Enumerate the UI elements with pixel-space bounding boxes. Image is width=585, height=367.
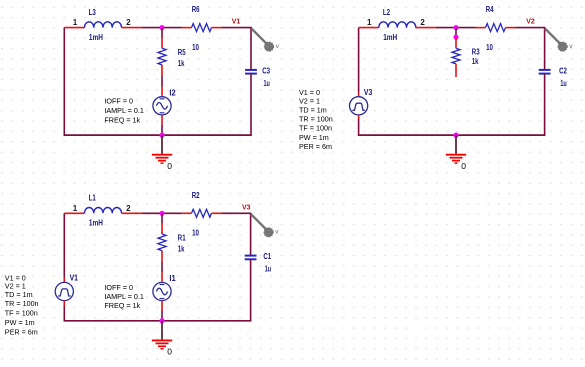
svg-text:PER = 6m: PER = 6m bbox=[299, 142, 332, 151]
svg-text:PER = 6m: PER = 6m bbox=[5, 328, 38, 337]
wire bbox=[161, 251, 163, 262]
svg-text:IOFF = 0: IOFF = 0 bbox=[104, 283, 133, 292]
ground bbox=[152, 321, 172, 349]
source V3 parameters bbox=[299, 88, 333, 151]
ground bbox=[152, 135, 172, 163]
svg-text:TD = 1m: TD = 1m bbox=[5, 290, 33, 299]
voltage probe bbox=[251, 214, 279, 237]
wire bbox=[63, 305, 65, 321]
wire bbox=[161, 224, 163, 234]
svg-text:IAMPL = 0.1: IAMPL = 0.1 bbox=[104, 292, 143, 301]
wire bbox=[436, 27, 476, 29]
svg-text:L1: L1 bbox=[89, 194, 97, 203]
wire bbox=[161, 38, 163, 48]
wire bbox=[161, 115, 163, 125]
svg-text:V2 = 1: V2 = 1 bbox=[299, 96, 320, 105]
svg-text:R1: R1 bbox=[178, 234, 186, 243]
svg-text:1mH: 1mH bbox=[383, 33, 397, 42]
resistor R4 bbox=[486, 5, 506, 52]
svg-text:2: 2 bbox=[420, 18, 425, 27]
svg-text:TD = 1m: TD = 1m bbox=[299, 105, 327, 114]
source I1 parameters bbox=[104, 283, 143, 310]
wire bbox=[63, 301, 65, 306]
wire bbox=[64, 27, 84, 29]
wire bbox=[358, 28, 360, 93]
svg-text:FREQ = 1k: FREQ = 1k bbox=[104, 301, 140, 310]
junction bbox=[453, 35, 458, 40]
wire bbox=[161, 213, 163, 224]
wire bbox=[358, 120, 360, 136]
capacitor C2 bbox=[539, 66, 568, 88]
svg-text:PW = 1m: PW = 1m bbox=[299, 133, 329, 142]
current source I1 bbox=[153, 282, 171, 300]
wire bbox=[141, 27, 181, 29]
junction bbox=[159, 133, 164, 138]
svg-text:R4: R4 bbox=[486, 5, 494, 14]
source I2 parameters bbox=[104, 96, 143, 124]
voltage probe bbox=[545, 29, 573, 52]
capacitor C1 bbox=[245, 252, 272, 274]
capacitor C3 bbox=[245, 66, 270, 88]
svg-text:V3: V3 bbox=[364, 88, 373, 97]
svg-text:1k: 1k bbox=[178, 245, 185, 254]
svg-text:TR = 100n: TR = 100n bbox=[5, 299, 39, 308]
resistor R3 bbox=[452, 48, 480, 67]
svg-text:L3: L3 bbox=[89, 8, 97, 17]
source V1 parameters bbox=[5, 274, 39, 337]
inductor L3 bbox=[85, 8, 122, 42]
wire bbox=[161, 125, 163, 135]
wire bbox=[476, 27, 486, 29]
svg-text:TF = 100n: TF = 100n bbox=[5, 309, 38, 318]
svg-text:1: 1 bbox=[73, 18, 78, 27]
svg-text:TR = 100n: TR = 100n bbox=[299, 114, 333, 123]
wire bbox=[122, 27, 142, 29]
wire bbox=[222, 27, 252, 29]
wire bbox=[141, 212, 181, 214]
junction bbox=[453, 25, 458, 30]
wire bbox=[358, 134, 546, 136]
resistor R6 bbox=[192, 5, 212, 52]
wire bbox=[506, 27, 516, 29]
wire bbox=[64, 320, 252, 322]
resistor R2 bbox=[192, 191, 212, 238]
svg-text:FREQ = 1k: FREQ = 1k bbox=[104, 116, 140, 125]
wire bbox=[250, 259, 252, 321]
wire bbox=[544, 28, 546, 70]
svg-text:1u: 1u bbox=[560, 79, 566, 88]
wire bbox=[544, 74, 546, 136]
wire bbox=[182, 27, 192, 29]
wire bbox=[358, 115, 360, 120]
wire bbox=[161, 76, 163, 87]
svg-text:1mH: 1mH bbox=[89, 219, 103, 228]
svg-text:I2: I2 bbox=[169, 89, 176, 98]
wire bbox=[64, 134, 252, 136]
svg-text:R3: R3 bbox=[472, 48, 480, 57]
svg-text:V3: V3 bbox=[242, 204, 251, 211]
wire bbox=[161, 87, 163, 96]
resistor R5 bbox=[158, 48, 186, 68]
wire bbox=[358, 92, 360, 97]
wire bbox=[182, 212, 192, 214]
junction bbox=[453, 133, 458, 138]
ground bbox=[446, 135, 466, 163]
resistor R1 bbox=[158, 234, 186, 254]
svg-text:R2: R2 bbox=[192, 191, 200, 200]
wire bbox=[161, 262, 163, 273]
wire bbox=[63, 213, 65, 277]
junction bbox=[159, 318, 164, 323]
junction bbox=[159, 25, 164, 30]
inductor L2 bbox=[379, 8, 416, 42]
svg-text:V1: V1 bbox=[70, 274, 79, 283]
wire bbox=[455, 28, 457, 37]
current source I2 bbox=[153, 97, 171, 115]
wire bbox=[63, 28, 65, 136]
wire bbox=[455, 64, 457, 77]
svg-text:10: 10 bbox=[192, 229, 199, 238]
svg-text:C1: C1 bbox=[263, 252, 271, 261]
wire bbox=[161, 28, 163, 38]
wire bbox=[122, 212, 142, 214]
wire bbox=[250, 213, 252, 255]
svg-text:R5: R5 bbox=[178, 48, 186, 57]
svg-text:TF = 100n: TF = 100n bbox=[299, 123, 332, 132]
wire bbox=[212, 212, 222, 214]
svg-text:V1: V1 bbox=[232, 19, 241, 26]
wire bbox=[250, 74, 252, 136]
svg-text:2: 2 bbox=[126, 18, 131, 27]
wire bbox=[516, 27, 546, 29]
svg-text:0: 0 bbox=[167, 161, 172, 171]
svg-text:1: 1 bbox=[73, 204, 78, 213]
svg-text:IOFF = 0: IOFF = 0 bbox=[104, 96, 133, 105]
junction bbox=[159, 211, 164, 216]
svg-text:10: 10 bbox=[192, 43, 199, 52]
wire bbox=[222, 212, 252, 214]
svg-text:IAMPL = 0.1: IAMPL = 0.1 bbox=[104, 106, 143, 115]
svg-text:1u: 1u bbox=[265, 265, 271, 274]
svg-text:1: 1 bbox=[367, 18, 372, 27]
svg-text:V2: V2 bbox=[526, 19, 535, 26]
wire bbox=[455, 37, 457, 48]
wire bbox=[212, 27, 222, 29]
voltage probe bbox=[252, 29, 280, 52]
svg-text:1mH: 1mH bbox=[89, 33, 103, 42]
svg-text:C2: C2 bbox=[559, 66, 567, 75]
svg-text:R6: R6 bbox=[192, 5, 200, 14]
wire bbox=[416, 27, 436, 29]
wire bbox=[161, 272, 163, 281]
svg-text:PW = 1m: PW = 1m bbox=[5, 318, 35, 327]
wire bbox=[161, 301, 163, 311]
svg-text:10: 10 bbox=[486, 43, 493, 52]
svg-text:C3: C3 bbox=[262, 66, 270, 75]
svg-text:2: 2 bbox=[126, 204, 131, 213]
svg-text:1k: 1k bbox=[178, 59, 185, 68]
svg-text:1k: 1k bbox=[472, 57, 479, 66]
wire bbox=[359, 27, 379, 29]
svg-text:0: 0 bbox=[461, 161, 466, 171]
wire bbox=[250, 28, 252, 70]
voltage source V3 bbox=[350, 97, 368, 115]
wire bbox=[161, 65, 163, 76]
inductor L1 bbox=[85, 194, 122, 228]
wire bbox=[161, 311, 163, 321]
voltage source V1 bbox=[55, 282, 73, 300]
svg-text:0: 0 bbox=[167, 347, 172, 357]
svg-text:1u: 1u bbox=[264, 79, 270, 88]
wire bbox=[63, 278, 65, 283]
svg-text:L2: L2 bbox=[383, 8, 391, 17]
svg-text:I1: I1 bbox=[169, 274, 176, 283]
wire bbox=[64, 212, 84, 214]
